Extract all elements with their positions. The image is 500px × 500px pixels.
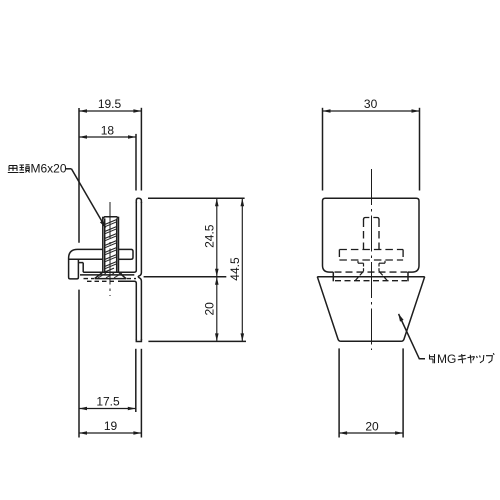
trapezoid left slant bbox=[317, 277, 341, 342]
hidden bottom edge dashed y280.7 bbox=[335, 280, 407, 282]
dimension 24.5 vertical line bbox=[216, 198, 218, 276]
arrow 20 top bbox=[215, 277, 219, 285]
countersunk head flare right bbox=[119, 272, 127, 278]
arrow 24.5 bottom bbox=[215, 269, 219, 277]
arrow 30 right bbox=[412, 109, 420, 113]
svg-text:19.5: 19.5 bbox=[98, 97, 122, 111]
trapezoid top edge bbox=[317, 276, 424, 278]
right view centerline bbox=[371, 169, 373, 350]
rail wall bottom cap bbox=[136, 339, 141, 342]
katakana プ bbox=[486, 353, 494, 363]
extension line x419.5 (30 dim) bbox=[419, 108, 421, 191]
label 皿頭M6x20 : kanji drawn as strokes + latin text bbox=[8, 165, 30, 173]
dimension 18 line bbox=[79, 136, 136, 138]
cap body bottom right corner solid bbox=[408, 266, 419, 273]
svg-text:17.5: 17.5 bbox=[96, 395, 120, 409]
bracket inner step vertical x83.2 bbox=[82, 263, 84, 273]
hidden slot bottom edge dashes y281.3 bbox=[87, 280, 117, 282]
screw shaft thread inner left bbox=[104, 218, 106, 271]
arrow 30 left bbox=[323, 109, 331, 113]
hidden slot edge dashes beside head y278.6 bbox=[84, 278, 137, 280]
extension line x339.1 (20 dim) bbox=[338, 348, 340, 437]
arrow 17.5 right bbox=[128, 407, 136, 411]
bracket top bar: top line (broken at screw) bbox=[78, 248, 103, 250]
arrow 20 right bbox=[395, 431, 403, 435]
svg-text:18: 18 bbox=[101, 124, 115, 138]
hidden clamp bar (dashed rectangle) bbox=[339, 250, 403, 261]
screw shaft outer right bbox=[118, 217, 120, 273]
screw shaft outer left bbox=[102, 217, 104, 273]
arrow 20 left bbox=[339, 431, 347, 435]
arrow 18 right bbox=[128, 135, 136, 139]
svg-text:20: 20 bbox=[203, 302, 217, 316]
arrow 19.5 right bbox=[133, 109, 141, 113]
screw top edge bbox=[103, 217, 119, 219]
hidden screw shaft top (dashed) bbox=[364, 218, 380, 250]
extension line left x79 upper bbox=[78, 108, 80, 243]
arrow 18 left bbox=[79, 135, 87, 139]
svg-text:19: 19 bbox=[104, 419, 118, 433]
slot centre reference line y276.8 bbox=[144, 276, 227, 278]
svg-text:44.5: 44.5 bbox=[228, 257, 242, 281]
arrow 24.5 top bbox=[215, 198, 219, 206]
extension line x403.1 (20 dim) bbox=[402, 348, 404, 437]
part bottom reference line y341.4 bbox=[148, 340, 246, 342]
countersunk head bottom bbox=[95, 278, 126, 280]
hidden head flare left bbox=[360, 271, 364, 275]
rail wall top cap bbox=[136, 198, 141, 203]
countersunk head flare left bbox=[95, 272, 103, 278]
katakana ャ bbox=[468, 355, 475, 363]
arrow 17.5 left bbox=[79, 407, 87, 411]
kanji 頭 bbox=[19, 165, 29, 173]
kanji 皿 bbox=[8, 166, 19, 173]
dimension 17.5 line bbox=[79, 408, 136, 410]
svg-text:24.5: 24.5 bbox=[203, 224, 217, 248]
arrow 20 bottom bbox=[215, 333, 219, 341]
bracket top-left rounded corner + left edge bbox=[69, 249, 79, 279]
extension line x141.4 lower (19 dim) bbox=[140, 349, 142, 438]
slot front edge line y274.9 bbox=[80, 274, 134, 276]
leader 皿頭M6x20 tick bbox=[66, 168, 71, 170]
arrow 44.5 bottom bbox=[241, 333, 245, 341]
trapezoid right slant bbox=[401, 277, 425, 342]
dimension 19.5 line bbox=[79, 110, 141, 112]
leader 片MGキャップ diagonal bbox=[399, 314, 425, 359]
extension line x141.4 (19.5 dim / wall outer) bbox=[140, 108, 142, 191]
kanji 片 bbox=[429, 354, 435, 363]
step wall right bbox=[407, 272, 409, 281]
rail wall inner line upper, curving into slot top edge y272.2 bbox=[83, 202, 136, 272]
screw thread hatching bbox=[105, 220, 117, 273]
dimension 20 line (right view) bbox=[339, 432, 403, 434]
dimension 20 vertical line bbox=[216, 277, 218, 342]
bracket bar right end bbox=[131, 249, 133, 259]
dimension 19 line bbox=[79, 432, 141, 434]
hidden shaft left bbox=[363, 220, 365, 250]
screw centerline bbox=[109, 202, 111, 296]
leader arrowhead bbox=[100, 220, 106, 228]
extension line x136 (18 dim / wall inner) bbox=[135, 134, 137, 191]
rail wall inner line lower, from slot bottom edge y281.3 bbox=[118, 281, 136, 340]
cap body outline (rounded box) bbox=[323, 198, 420, 265]
svg-text:M6x20: M6x20 bbox=[31, 162, 67, 176]
rail wall outer line with slot pinch bbox=[138, 202, 141, 340]
arrow 19.5 left bbox=[79, 109, 87, 113]
extension line left x79 lower bbox=[78, 290, 80, 438]
leader 皿頭M6x20 diagonal bbox=[71, 169, 105, 228]
katakana ッ bbox=[477, 355, 484, 363]
svg-text:MG: MG bbox=[437, 352, 456, 366]
cap body bottom hidden middle (dashed) bbox=[335, 271, 408, 273]
bracket bar bottom line (broken at screw) bbox=[69, 258, 103, 260]
extension line x135.8 lower (17.5 dim) bbox=[135, 349, 137, 412]
svg-text:20: 20 bbox=[365, 420, 379, 434]
arrow 44.5 top bbox=[241, 198, 245, 206]
katakana キ bbox=[458, 354, 466, 363]
dimension 44.5 vertical line bbox=[241, 198, 243, 341]
leader arrowhead bbox=[398, 314, 403, 322]
hidden head flare right bbox=[379, 271, 383, 275]
head hatching bbox=[98, 273, 122, 278]
bracket inner step horizontal y262.6 bbox=[78, 262, 83, 264]
trapezoid bottom edge bbox=[341, 340, 401, 342]
hidden shaft right bbox=[378, 220, 380, 250]
arrow 19 right bbox=[133, 431, 141, 435]
part top reference line y198.3 bbox=[148, 197, 245, 199]
arrow 19 left bbox=[79, 431, 87, 435]
hidden boss steps below bar (dash segments) bbox=[355, 261, 387, 281]
dimension 30 line bbox=[323, 110, 420, 112]
extension line x322.5 (30 dim) bbox=[322, 108, 324, 191]
svg-text:30: 30 bbox=[364, 97, 378, 111]
step wall left bbox=[332, 272, 334, 281]
screw shaft thread inner right bbox=[116, 218, 118, 271]
cap body bottom left corner solid bbox=[323, 266, 334, 273]
